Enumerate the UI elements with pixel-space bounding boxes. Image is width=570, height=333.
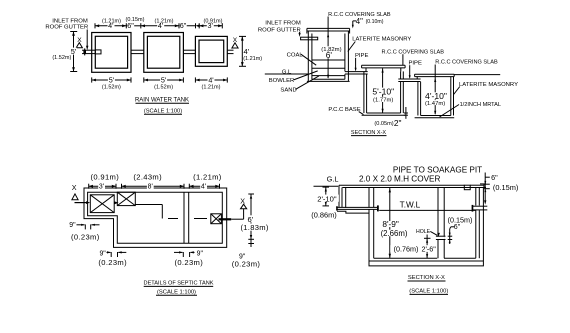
section marker X right (septic) [240, 197, 246, 209]
svg-text:(2.66m): (2.66m) [381, 229, 408, 238]
inlet chamber crossed box 1 [90, 195, 114, 213]
leader rcc slab 2 [402, 54, 404, 65]
section T3 right wall [451, 77, 454, 116]
svg-text:SAND: SAND [280, 87, 296, 93]
title RAIN WATER TANK [135, 98, 189, 104]
rain water tank T3 inner wall (plan) [199, 40, 224, 63]
septic right wall (section) [476, 188, 480, 259]
septic inlet pipe (section) [336, 205, 379, 211]
dim 2ft10 text [315, 194, 339, 203]
leader bowler [294, 71, 318, 80]
rain water tank T2 outer wall (plan) [144, 33, 184, 73]
septic section top slab [339, 184, 486, 188]
title SECTION X-X (top) [351, 130, 387, 136]
label RCC COVERING SLAB 2 [382, 49, 445, 55]
crossed box 2 [117, 192, 135, 205]
svg-text:(1.21m): (1.21m) [243, 56, 262, 62]
label COAL [287, 52, 304, 58]
section marker X right (plan) [232, 37, 238, 48]
section T1 coal layer line [312, 59, 345, 61]
svg-text:ROOF GUTTER: ROOF GUTTER [258, 28, 301, 34]
leader pipe 1 [355, 58, 357, 72]
base thickness dim 2in [404, 107, 408, 119]
bottom dim T1 5ft [92, 75, 131, 90]
svg-text:4': 4' [108, 21, 114, 30]
T1 dim text 1.82m [321, 46, 341, 53]
svg-text:INLET FROM: INLET FROM [52, 18, 88, 24]
svg-text:T.W.L: T.W.L [400, 200, 421, 209]
septic tank inner boundary [88, 192, 223, 243]
section T1 bowler layer line [312, 67, 345, 69]
svg-text:(0.23m): (0.23m) [71, 232, 100, 241]
label PIPE TO SOAKAGE PIT [393, 166, 482, 175]
septic dim text 8ft [147, 184, 154, 191]
svg-text:DETAILS OF SEPTIC TANK: DETAILS OF SEPTIC TANK [144, 281, 214, 287]
top dim text 1.21m second [155, 18, 174, 24]
T1 dim text 6ft [325, 50, 332, 60]
svg-text:6": 6" [127, 21, 134, 30]
hole dim text 6in [454, 224, 461, 231]
top dim text 6in first [127, 21, 134, 30]
section T1 top slab [307, 28, 350, 33]
svg-text:3': 3' [208, 21, 214, 30]
leader laterite masonry 2 [454, 87, 460, 95]
svg-text:R.C.C COVERING SLAB: R.C.C COVERING SLAB [382, 49, 445, 55]
right dimension 1.21m text [243, 56, 262, 62]
svg-text:2": 2" [394, 118, 402, 128]
label MH COVER [359, 174, 441, 183]
svg-text:6": 6" [491, 173, 498, 182]
svg-text:G.L: G.L [327, 174, 339, 183]
svg-text:X: X [72, 183, 77, 192]
right 0.23m text [232, 260, 261, 269]
title DETAILS OF SEPTIC TANK [144, 281, 214, 287]
bottom 9in text 1 [99, 250, 106, 257]
slab thickness dim 4in bracket [352, 21, 356, 29]
svg-text:4': 4' [208, 75, 214, 84]
section T1 right wall [345, 31, 349, 81]
svg-text:ROOF GUTTER: ROOF GUTTER [45, 25, 88, 31]
svg-text:4': 4' [201, 184, 206, 191]
svg-text:5'-10": 5'-10" [372, 86, 394, 96]
septic tank bottom slab [369, 258, 483, 261]
T3 dim text 4ft10 [424, 91, 447, 101]
ground line left of T1 [265, 73, 309, 75]
svg-text:(1.21m): (1.21m) [193, 172, 222, 181]
svg-text:5': 5' [161, 75, 167, 84]
right dimension 4ft text [243, 47, 249, 56]
top dim text 4ft first [108, 21, 115, 30]
T2 dim text 5ft10 [372, 86, 395, 96]
svg-text:(0.15m): (0.15m) [448, 215, 473, 224]
right dim 1.83m text [240, 223, 268, 232]
bottom dim T3 4ft [195, 75, 227, 90]
septic top dim arrows [89, 185, 220, 188]
right dim 6ft text [247, 215, 254, 224]
svg-text:2'-10": 2'-10" [317, 194, 337, 203]
svg-text:(SCALE 1:100): (SCALE 1:100) [144, 109, 182, 115]
svg-text:PIPE: PIPE [355, 53, 368, 59]
svg-text:(SCALE 1:100): (SCALE 1:100) [157, 289, 196, 295]
svg-text:(1.83m): (1.83m) [240, 223, 268, 232]
label TWL [400, 200, 421, 209]
svg-text:(1.21m): (1.21m) [202, 84, 221, 90]
pipe T1-T2 (section) [345, 72, 368, 74]
septic left wall (section) [339, 185, 342, 207]
dim 2ft6 texts [390, 245, 437, 254]
rain water tank T1 inner wall (plan) [95, 36, 127, 68]
svg-text:4'-10": 4'-10" [425, 91, 447, 101]
left wall 9in text [69, 222, 76, 229]
rain water tank T3 outer wall (plan) [195, 36, 227, 66]
svg-text:PIPE: PIPE [408, 61, 421, 67]
left dimension 5ft text [70, 47, 77, 56]
outlet pipe through right wall (plan) [219, 218, 232, 220]
section marker X left (septic) [72, 183, 78, 200]
svg-text:(0.91m): (0.91m) [90, 172, 119, 181]
septic dim text 1.21m [193, 172, 222, 181]
outlet pipe to soakage (section) [472, 205, 488, 212]
label RCC COVERING SLAB 1 [328, 12, 391, 18]
svg-text:COAL: COAL [287, 52, 304, 58]
label LATERITE MASONRY 1 [352, 36, 411, 42]
ground line right of T3 [454, 74, 500, 76]
dashed flow line to box 3 [168, 218, 207, 220]
title SECTION X-X (bottom) [408, 275, 446, 281]
svg-text:8': 8' [148, 184, 153, 191]
svg-text:4": 4" [356, 17, 363, 26]
section T1 inlet pipe [301, 37, 318, 40]
dim 2ft10 line [323, 187, 330, 206]
pipe T2-T3 [183, 50, 195, 53]
svg-text:(0.23m): (0.23m) [232, 260, 261, 269]
rain water tank T1 outer wall (plan) [92, 33, 131, 73]
section marker X left (plan) [76, 37, 82, 48]
manhole cover notch (right chamber) [464, 185, 470, 190]
label INLET FROM ROOF GUTTER (section) [258, 20, 301, 33]
section T3 bottom [415, 116, 455, 118]
left wall 9in dim [77, 224, 100, 230]
svg-text:(2.43m): (2.43m) [133, 172, 162, 181]
label half inch mrtal [460, 102, 501, 108]
svg-text:(0.23m): (0.23m) [98, 258, 127, 267]
label INLET FROM ROOF GUTTER (plan) [45, 18, 88, 30]
flow line box2 to drop [135, 205, 162, 219]
top right dim 6in [484, 177, 490, 192]
svg-text:LATERITE MASONRY: LATERITE MASONRY [352, 36, 411, 42]
svg-text:(0.23m): (0.23m) [174, 258, 203, 267]
svg-text:1/2INCH MRTAL: 1/2INCH MRTAL [460, 102, 501, 108]
label LATERITE MASONRY 2 [459, 82, 518, 88]
svg-text:9": 9" [197, 250, 204, 257]
top dimension arrows [95, 24, 222, 27]
top dim text 3ft [207, 21, 214, 30]
top dimension chain line [95, 25, 222, 27]
septic dim text 3ft [98, 184, 105, 191]
label GL (section) [282, 69, 292, 75]
svg-text:SECTION X-X: SECTION X-X [351, 130, 386, 136]
bottom wall 9in dim 1 [107, 251, 127, 257]
svg-text:(1.77m): (1.77m) [373, 98, 393, 104]
septic top dim ticks [89, 184, 220, 189]
partition 9in dim [174, 251, 195, 257]
left dimension 5ft line [70, 32, 77, 72]
section T1 left wall [308, 31, 312, 81]
svg-text:(1.52m): (1.52m) [102, 84, 121, 90]
svg-text:6': 6' [326, 50, 333, 60]
T3 dim text 1.47m [425, 100, 445, 107]
section T2 left wall [364, 71, 367, 113]
svg-text:SECTION X-X: SECTION X-X [408, 275, 445, 281]
svg-text:2.0 X 2.0 M.H COVER: 2.0 X 2.0 M.H COVER [359, 174, 441, 183]
subtitle scale 1:100 (septic tank) [156, 289, 197, 295]
dim 8ft9 text [381, 219, 400, 229]
leader coal [301, 54, 316, 65]
top right 6in text [491, 173, 498, 182]
svg-text:5': 5' [109, 75, 115, 84]
subtitle scale 1:100 (rain water tank) [144, 109, 182, 115]
label PIPE 2 [408, 61, 421, 67]
hole dim text 0.15m [448, 215, 473, 224]
svg-text:HOLE: HOLE [416, 229, 431, 235]
label RCC COVERING SLAB 3 [435, 59, 498, 65]
dim 2ft6 line [424, 235, 431, 259]
top dim text 0.15m [126, 17, 145, 23]
label BOWLER [269, 78, 295, 84]
label SAND [280, 87, 296, 93]
top dim text 1.21m first [102, 18, 121, 24]
inlet baffle inside T1 [95, 50, 101, 54]
T3 interior dim with RCC leader [434, 65, 436, 115]
partition 0.23m text [174, 258, 203, 267]
svg-text:(SCALE 1:100): (SCALE 1:100) [409, 289, 448, 295]
svg-text:(0.76m): (0.76m) [394, 245, 419, 254]
svg-text:(0.10m): (0.10m) [366, 19, 384, 25]
svg-text:(0.15m): (0.15m) [493, 183, 518, 192]
right vertical dim 6ft [248, 194, 254, 247]
hole dim 6in [448, 227, 455, 244]
section T3 left wall [418, 82, 421, 116]
svg-text:X: X [240, 197, 245, 206]
inlet pipe into T1 [82, 48, 95, 55]
ground line left (septic section) [314, 185, 339, 187]
svg-text:BOWLER: BOWLER [269, 78, 295, 84]
right 9in text [239, 254, 246, 261]
leader pipe 2 [409, 65, 411, 79]
left dimension 1.52m text [52, 55, 71, 61]
pipe T2-T3 (section) [398, 79, 420, 82]
pipe T1-T2 [131, 50, 144, 53]
T2 dim text 1.77m [373, 97, 394, 104]
svg-text:3': 3' [99, 184, 104, 191]
septic partition wall (section) [438, 188, 444, 259]
outlet crossed box 3 [211, 214, 222, 224]
T2 interior dim [382, 68, 384, 113]
flow arrow box1 to box2 [114, 201, 118, 204]
chamber1 inner wall line [345, 188, 347, 208]
outlet line to section marker [231, 209, 243, 220]
svg-text:6": 6" [180, 21, 187, 30]
leader laterite masonry 1 [348, 42, 356, 52]
partition 9in text [197, 250, 204, 257]
slab thickness text 0.10m [366, 19, 384, 25]
section T2 bottom [362, 113, 406, 115]
dim 0.86m text [311, 211, 336, 220]
svg-text:(1.52m): (1.52m) [52, 55, 71, 61]
label GL (septic section) [327, 174, 339, 183]
section T1 sand layer line [312, 75, 345, 77]
T1 interior dim line with RCC leader [327, 17, 329, 79]
svg-text:4': 4' [243, 47, 249, 56]
hole in partition wall [436, 236, 446, 239]
slab thickness text 4in [356, 17, 363, 26]
excavation boundary (septic section) [337, 187, 483, 266]
section T2 top slab [362, 65, 406, 71]
bottom 0.23m text 1 [98, 258, 127, 267]
right dimension 4ft line [239, 36, 246, 66]
label PCC BASE [328, 107, 360, 113]
svg-text:8'-9": 8'-9" [382, 219, 399, 229]
base dim text 2in [394, 118, 402, 128]
septic dim text 4ft [200, 184, 207, 191]
septic tank outer boundary [84, 188, 227, 247]
section T2 right wall [401, 71, 404, 113]
svg-text:9": 9" [99, 250, 106, 257]
svg-text:LATERITE MASONRY: LATERITE MASONRY [459, 82, 518, 88]
bottom dim T2 5ft [144, 75, 184, 90]
svg-text:6": 6" [454, 224, 461, 231]
leader hole [430, 231, 440, 236]
septic top dim line [89, 185, 220, 187]
leader half inch mrtal [440, 105, 460, 118]
section T3 top slab [415, 74, 455, 79]
svg-text:P.C.C BASE: P.C.C BASE [328, 107, 360, 113]
svg-text:4': 4' [158, 21, 164, 30]
septic dim text 0.91m [90, 172, 119, 181]
leader pcc base [359, 112, 364, 115]
septic partition wall (plan) [184, 192, 189, 243]
svg-text:(0.86m): (0.86m) [311, 211, 336, 220]
top dimension ticks [95, 23, 222, 28]
label HOLE [416, 229, 431, 235]
rain water tank T2 inner wall (plan) [147, 36, 179, 68]
svg-text:PIPE TO SOAKAGE PIT: PIPE TO SOAKAGE PIT [393, 166, 482, 175]
leader arrow from roof gutter label to inlet pipe [86, 30, 88, 51]
svg-text:5': 5' [71, 47, 77, 56]
svg-text:INLET FROM: INLET FROM [265, 20, 301, 26]
svg-text:RAIN WATER TANK: RAIN WATER TANK [135, 98, 189, 104]
svg-text:2'-6": 2'-6" [422, 245, 437, 254]
leader pipe to soakage pit [484, 173, 486, 205]
label PIPE 1 [355, 53, 368, 59]
top right 0.15m text [493, 183, 518, 192]
svg-text:(1.52m): (1.52m) [154, 84, 173, 90]
svg-text:(1.47m): (1.47m) [425, 101, 445, 107]
svg-text:9": 9" [69, 222, 76, 229]
base dim text 0.05m [374, 121, 393, 127]
inlet flow arrow (plan) [75, 201, 91, 204]
top dim text 0.91m [204, 18, 223, 24]
TWL water line [379, 209, 476, 211]
leader sand [295, 76, 319, 90]
leader arrow roof gutter to T1 inlet pipe (section) [299, 32, 301, 37]
svg-text:R.C.C COVERING SLAB: R.C.C COVERING SLAB [435, 59, 498, 65]
subtitle scale 1:100 (septic section) [409, 289, 448, 295]
svg-text:(0.05m): (0.05m) [374, 121, 393, 127]
top dim text 4ft second [157, 21, 164, 30]
section T1 bottom [307, 79, 350, 81]
top dim text 6in second [180, 21, 187, 30]
septic dim text 2.43m [133, 172, 162, 181]
dim 2.66m text [381, 229, 408, 238]
septic tank left wall (section) [369, 188, 374, 259]
dim 8ft9 line [389, 188, 391, 258]
left wall 0.23m text [71, 232, 100, 241]
outlet pipe from T3 [227, 50, 233, 53]
